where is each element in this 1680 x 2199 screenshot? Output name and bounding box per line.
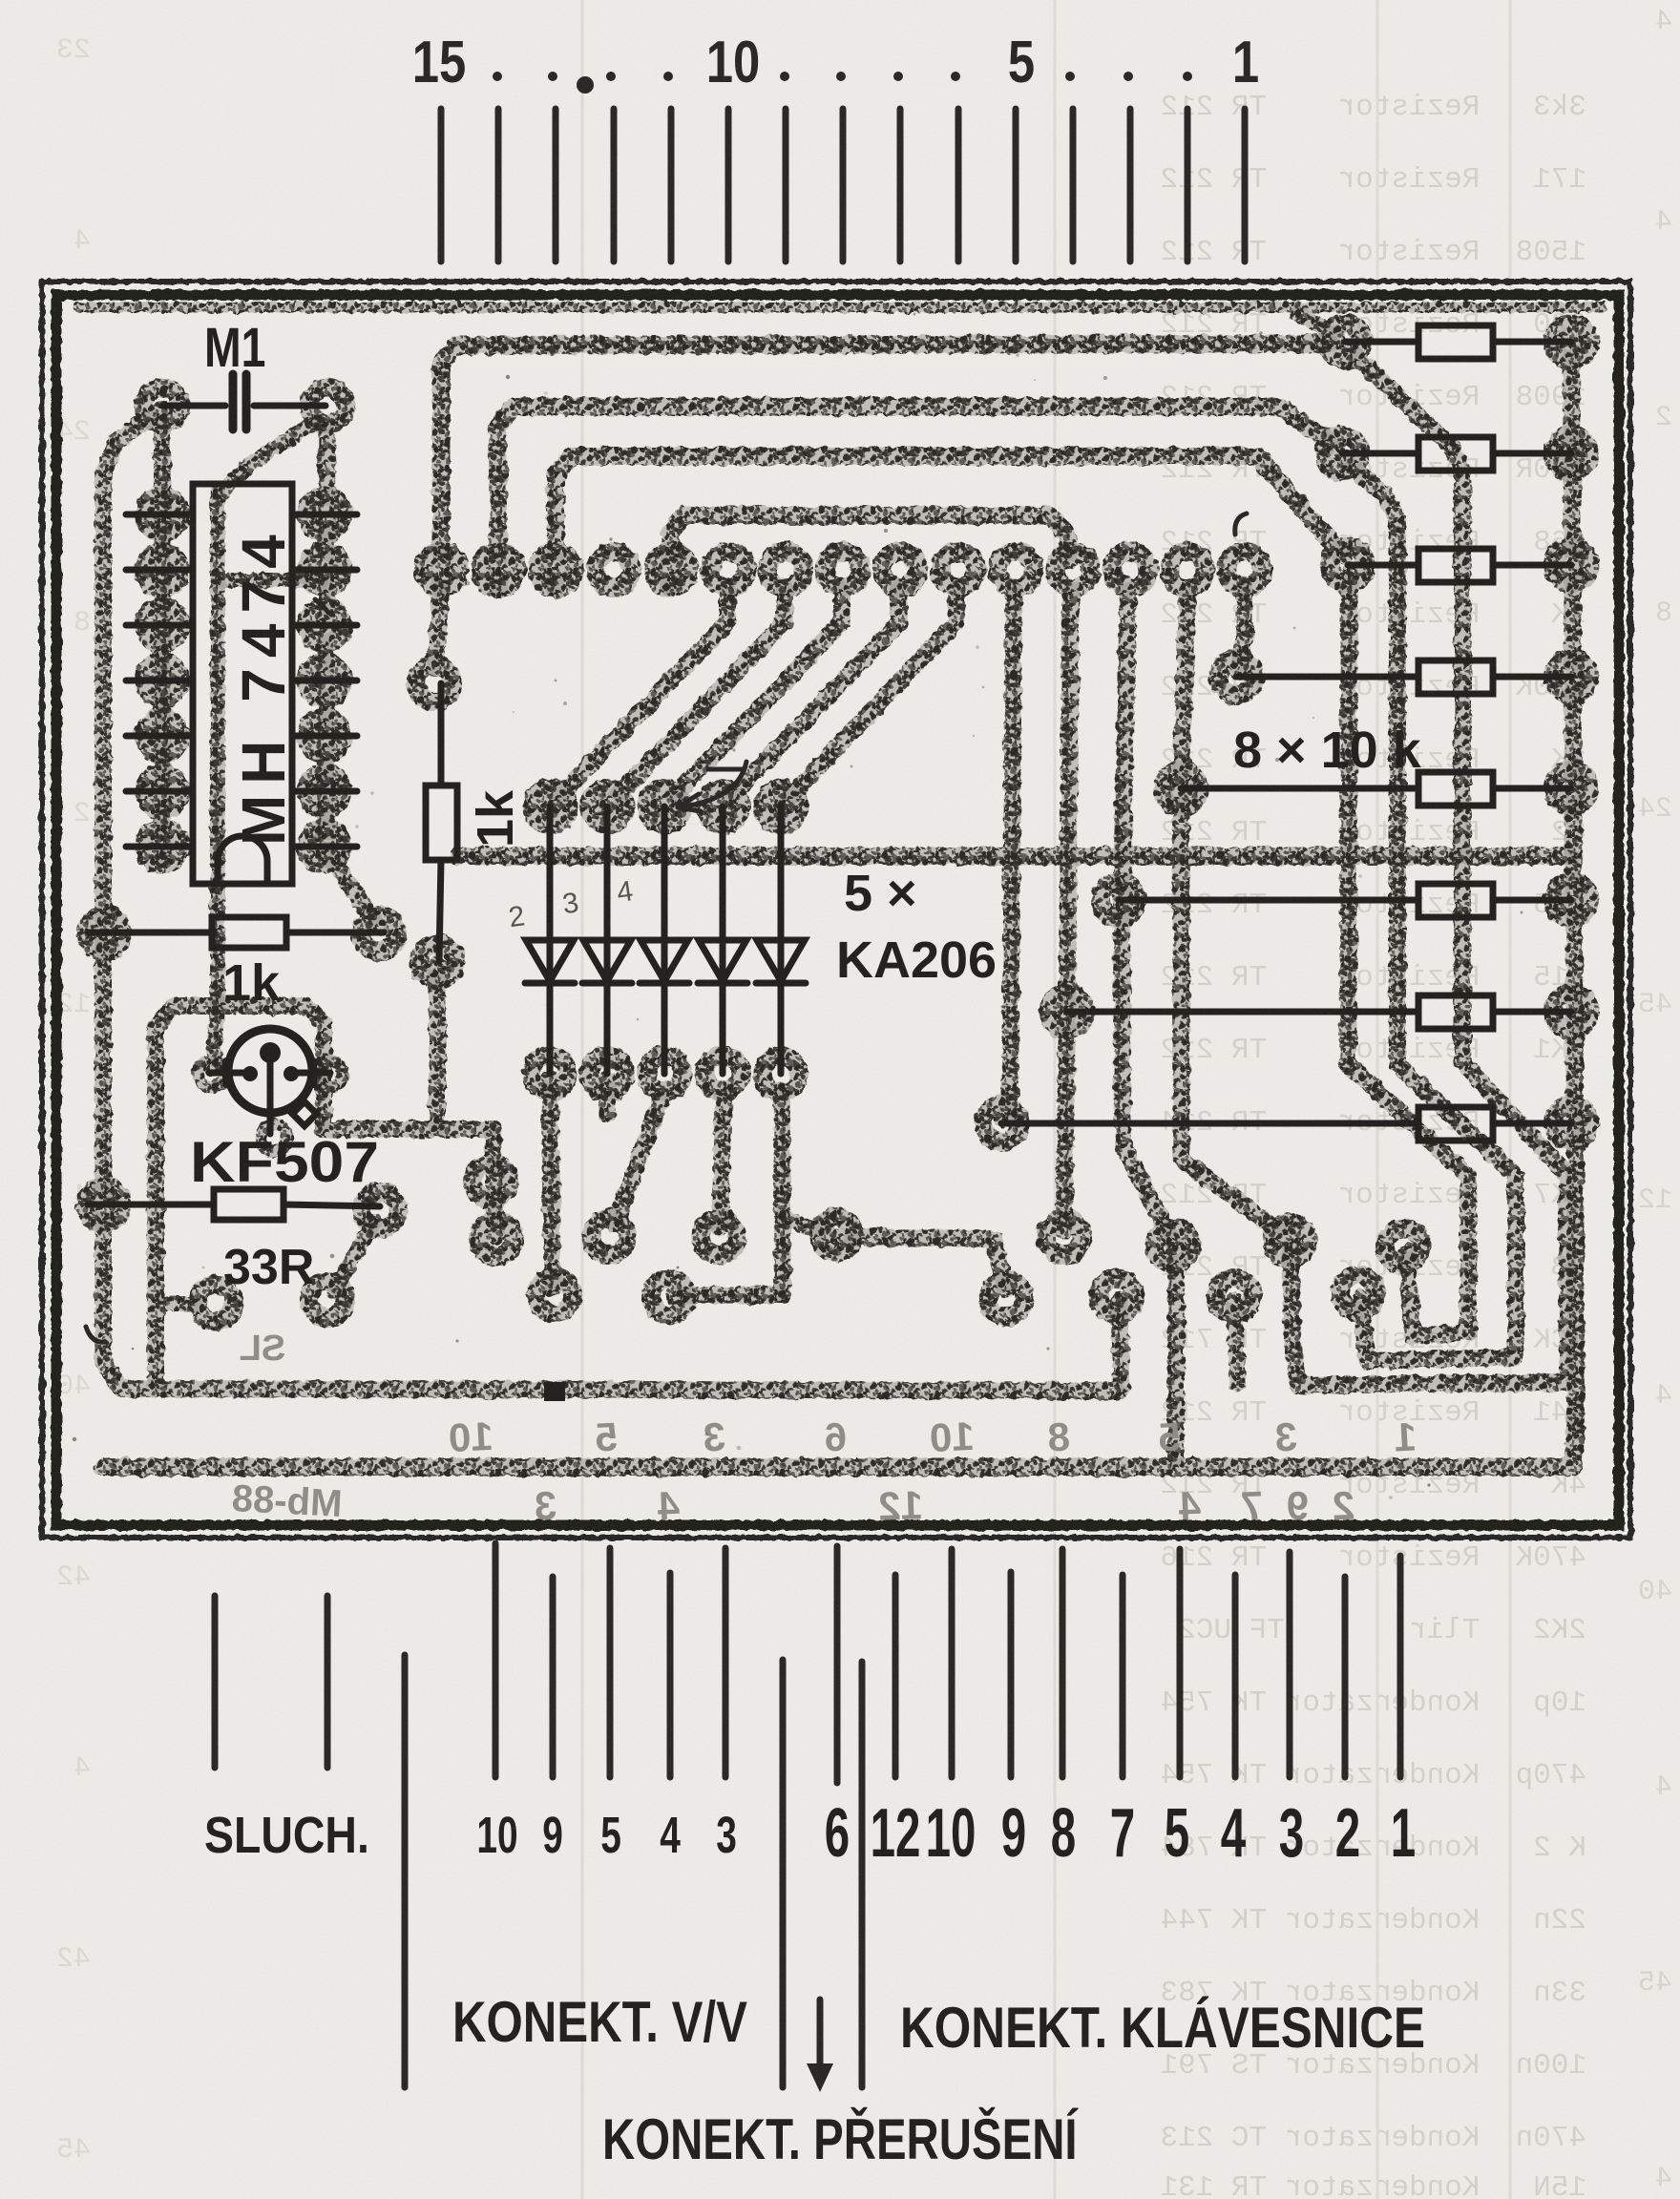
node D1 anode	[532, 788, 568, 825]
node pad br2	[1155, 1227, 1191, 1264]
node M1 right	[309, 387, 346, 424]
node RN8 left	[983, 1105, 1019, 1141]
node RN3 left	[1330, 547, 1366, 583]
node pad bl1	[198, 1285, 234, 1321]
node D5 anode	[763, 788, 799, 825]
wire pad876 horizontal right	[840, 1237, 1006, 1290]
node pin pad 10	[710, 552, 746, 588]
node pad br5	[988, 1281, 1024, 1317]
wire stem pad 1229 to bus B	[1167, 1250, 1185, 1460]
divider line 3	[859, 1662, 866, 2087]
wire under-IC branch	[218, 573, 321, 588]
wire diode5 stem	[782, 1096, 783, 1295]
connector pin ruler	[441, 109, 1245, 262]
node RN4 left	[1218, 659, 1254, 695]
transistor Q1 KF507	[228, 1029, 312, 1113]
wire bus 1	[441, 344, 1329, 590]
node pad br1	[1046, 1219, 1082, 1255]
wire pad398 diag	[334, 1222, 374, 1290]
node RN5 left	[1163, 770, 1199, 806]
SLUCH pin lines	[212, 1596, 219, 1768]
node D5 cathode	[763, 1056, 799, 1092]
wire under-IC to Q1 pad	[213, 1000, 218, 1069]
node IC left pin 2	[144, 552, 180, 588]
wire loop bottom horizontal	[324, 1120, 493, 1138]
node pin pad 12	[596, 552, 632, 588]
node pad br6	[1099, 1278, 1135, 1314]
divider line 2	[780, 1660, 787, 2087]
resistor 33R	[214, 1189, 283, 1220]
wire bus 2	[498, 407, 1336, 590]
node RN3 right	[1553, 547, 1589, 583]
node D2 anode	[589, 788, 625, 825]
wire mid horizontal long trace	[459, 848, 1570, 866]
node R 1k-v bottom	[419, 944, 455, 980]
resistor 1k (vertical)	[426, 785, 457, 860]
KONEKT KLAVESNICE pin lines	[892, 1575, 899, 1777]
node pin pad 3	[1112, 552, 1148, 588]
node R 1k-h left	[86, 915, 122, 952]
wire trace row2 to pad br8 loop	[1344, 459, 1516, 1361]
wire diode1 bottom stem	[550, 1079, 553, 1288]
node pad mid d	[701, 1219, 737, 1255]
wire top line to row1 pad diag	[1296, 313, 1338, 336]
node pad mid e	[818, 1217, 854, 1253]
wire column from pad 11	[1003, 590, 1014, 1119]
dirt specks	[73, 307, 1575, 1499]
node pad bl0	[472, 1163, 509, 1200]
node IC right pin 5	[306, 718, 343, 754]
divider line 1	[402, 1655, 409, 2087]
node pin pad 2	[1169, 552, 1206, 588]
node IC left pin 1	[144, 496, 180, 533]
node pin pad 15	[423, 552, 459, 588]
node D4 anode	[704, 788, 741, 825]
node RN8 right	[1553, 1105, 1589, 1141]
wire diode5 elbow to pad	[783, 1218, 829, 1235]
capacitor M1	[162, 403, 225, 409]
wire diode2 bottom stub	[598, 1079, 616, 1115]
node RN1 left	[1327, 324, 1363, 360]
wire trace row1 to pad br4 loop	[1291, 347, 1567, 1386]
node pin pad 11	[653, 552, 689, 588]
node D4 cathode	[704, 1056, 741, 1092]
wire diode3 diag	[615, 1096, 662, 1224]
node RN4 right	[1553, 659, 1589, 695]
wire diagonal to diode 3	[664, 588, 842, 807]
node pad br8	[1340, 1275, 1376, 1311]
node pad mid a	[478, 1221, 514, 1257]
wire pad701 horizontal	[674, 1287, 781, 1304]
node R 1k-v top	[416, 665, 452, 702]
node pin pad 1	[1227, 552, 1263, 588]
node RN6 right	[1553, 882, 1589, 918]
wire diagonal to diode 5	[781, 588, 956, 807]
node pin pad 7	[882, 552, 918, 588]
node IC left pin 4	[144, 662, 180, 699]
node IC right pin 3	[306, 607, 343, 643]
node IC left pin 5	[144, 718, 180, 754]
node pad br4	[1385, 1228, 1421, 1265]
wire pad226 stub	[160, 1296, 195, 1311]
node RN5 right	[1553, 770, 1589, 806]
node IC right pin 2	[306, 552, 343, 588]
node IC right pin 4	[306, 662, 343, 699]
resistor 1k (horizontal)	[212, 917, 286, 948]
IC MH 7474	[193, 484, 292, 884]
node IC right pin 6	[306, 773, 343, 809]
wire diagonal to diode 2	[607, 588, 785, 807]
node pad mid b	[536, 1277, 573, 1313]
wire column from pad 14	[1181, 590, 1290, 1239]
wire stem pad 1293 to outer loop	[1234, 1300, 1237, 1384]
wire bus 4	[670, 515, 1069, 588]
wire stem pad1 to 1k-v top	[435, 590, 441, 668]
node pin pad 14	[480, 552, 516, 588]
node pin pad 6	[940, 552, 976, 588]
wire transistor loop	[156, 1006, 324, 1384]
resistor network 8x10k	[1001, 325, 1571, 1141]
node Q1 left	[199, 1060, 225, 1087]
node IC right pin 7	[306, 828, 343, 865]
wire right pads column	[1571, 342, 1576, 1432]
node pin pad 8	[825, 552, 861, 588]
wire column from pad 13	[1122, 590, 1173, 1243]
node IC right pin 1	[306, 496, 343, 533]
node R 33R left	[86, 1186, 122, 1223]
wire 1k bottom stem	[429, 964, 446, 1129]
node R 33R right	[362, 1192, 398, 1228]
wire under-IC vertical	[210, 492, 225, 1000]
ink marks	[86, 513, 1247, 1342]
interrupt pin line	[834, 1546, 841, 1783]
node D3 anode	[646, 788, 682, 825]
node RN7 left	[1049, 994, 1085, 1030]
wire under-IC link	[221, 420, 318, 492]
wire chain elbow to 1k right pad	[325, 849, 378, 928]
arrow to preruseni	[817, 2000, 824, 2069]
node R 1k-h right	[361, 915, 397, 952]
diodes 5x KA206	[525, 806, 806, 1074]
wire IC left pad chain	[154, 431, 171, 859]
node D1 cathode	[532, 1056, 568, 1092]
KONEKT V/V pin lines	[493, 1543, 499, 1777]
node IC left pin 6	[144, 773, 180, 809]
node pad br7	[1216, 1278, 1252, 1314]
node Q1 bottom	[261, 1124, 287, 1151]
wire bus 3	[556, 456, 1342, 590]
node IC left pin 7	[144, 828, 180, 865]
node RN6 left	[1101, 882, 1137, 918]
node pad bl2	[309, 1282, 346, 1318]
node RN7 right	[1553, 994, 1589, 1030]
node pad mid f	[651, 1279, 687, 1315]
wire top inner stipple line	[78, 303, 1602, 313]
node pad br3	[1271, 1223, 1308, 1259]
wire diagonal to diode 1	[550, 588, 727, 807]
wire left loop to bottom bus A	[103, 410, 1119, 1391]
node pin pad 4	[1055, 552, 1091, 588]
node pin pad 9	[767, 552, 804, 588]
node D3 cathode	[646, 1056, 682, 1092]
node pin pad 5	[997, 552, 1034, 588]
wire stem pad 1170 to bus A	[1119, 1300, 1122, 1389]
wire column from pad 12	[1064, 590, 1071, 1231]
wire diode4 stem	[720, 1096, 724, 1227]
node RN1 right	[1553, 324, 1589, 360]
wire M1 right pad chain down	[325, 428, 327, 852]
node D2 cathode	[589, 1056, 625, 1092]
node Q1 right	[316, 1060, 343, 1087]
wire trace row3 to pad br3 loop	[1348, 571, 1468, 1336]
node RN2 right	[1553, 435, 1589, 471]
node pin pad 13	[537, 552, 574, 588]
node IC left pin 3	[144, 607, 180, 643]
pencil marks above diodes	[505, 875, 636, 933]
PCB board outline	[42, 282, 1630, 1538]
junction mark	[544, 1382, 565, 1401]
wire diagonal to diode 4	[723, 588, 899, 807]
wire column from pad 15	[1238, 590, 1245, 672]
node pad mid c	[591, 1219, 627, 1255]
node M1 left	[144, 387, 180, 424]
wire bottom bus B	[103, 1413, 1576, 1467]
wire stem to pad 520-1298	[493, 1129, 496, 1237]
node RN2 left	[1324, 435, 1360, 471]
